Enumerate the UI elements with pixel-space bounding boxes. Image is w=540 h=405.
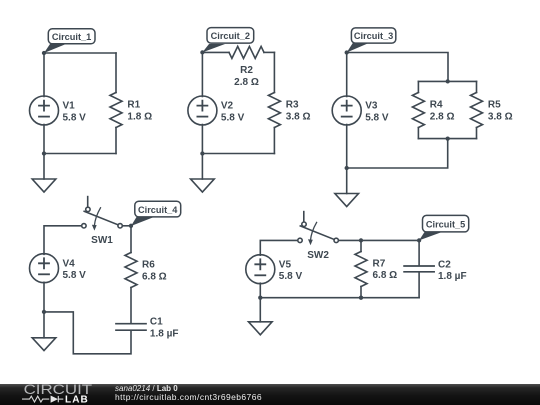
wire top-right lead C2	[264, 51, 274, 53]
wire left upper C3	[346, 53, 348, 97]
svg-text:5.8 V: 5.8 V	[63, 270, 87, 281]
ground C1	[32, 179, 56, 192]
wire R6 top lead C4	[130, 226, 132, 253]
footer bar	[0, 384, 540, 405]
wire left upper C1	[43, 53, 45, 97]
resistor R7	[355, 252, 367, 287]
wire switch-left C5	[260, 240, 298, 255]
balloon Circuit_3	[347, 28, 396, 53]
ground C5	[249, 322, 273, 335]
svg-text:Circuit_1: Circuit_1	[52, 32, 91, 42]
wire bottom C2	[202, 153, 274, 155]
wire switch-right C5	[338, 239, 419, 241]
wire bottom C1	[44, 153, 116, 155]
svg-text:LAB: LAB	[65, 394, 89, 405]
svg-text:1.8 µF: 1.8 µF	[438, 271, 467, 282]
resistor R1	[110, 93, 122, 128]
node C3 top	[345, 50, 349, 54]
resistor R4	[412, 93, 424, 128]
balloon Circuit_4	[131, 201, 181, 226]
voltage source V3	[332, 96, 361, 125]
svg-text:2.8 Ω: 2.8 Ω	[234, 77, 259, 88]
node C2 bottom	[200, 151, 204, 155]
resistor R3	[268, 93, 280, 128]
node C3 par top	[446, 79, 450, 83]
wire R7 bottom lead C5	[360, 287, 362, 298]
circuitlab logo	[0, 384, 100, 405]
node C5 cap top	[417, 238, 421, 242]
svg-text:Circuit_5: Circuit_5	[426, 220, 465, 230]
svg-text:V5: V5	[279, 259, 292, 270]
svg-text:3.8 Ω: 3.8 Ω	[286, 111, 311, 122]
balloon Circuit_2	[202, 28, 253, 53]
svg-text:3.8 Ω: 3.8 Ω	[488, 111, 513, 122]
switch SW2	[298, 212, 339, 246]
svg-text:1.8 µF: 1.8 µF	[150, 328, 179, 339]
svg-text:V1: V1	[63, 101, 76, 112]
wire right upper C2	[273, 52, 275, 92]
wire V5 bottom C5	[259, 283, 261, 322]
svg-text:6.8 Ω: 6.8 Ω	[142, 271, 167, 282]
node C4 switch	[129, 224, 133, 228]
resistor R6	[125, 253, 137, 288]
node C2 top	[200, 50, 204, 54]
svg-text:Circuit_3: Circuit_3	[354, 31, 393, 41]
voltage source V5	[246, 255, 275, 284]
wire R5 leads	[476, 81, 478, 138]
node C5 R7 bottom	[359, 296, 363, 300]
voltage source V1	[30, 96, 59, 125]
ground C2	[191, 179, 215, 192]
svg-text:6.8 Ω: 6.8 Ω	[373, 270, 398, 281]
node C5 V5 bottom	[258, 296, 262, 300]
node C3 par bottom	[446, 136, 450, 140]
svg-text:1.8 Ω: 1.8 Ω	[127, 111, 152, 122]
wire left lower C3	[346, 125, 348, 194]
wire top C1	[44, 52, 116, 54]
switch SW1	[82, 197, 123, 231]
node C3 bottom	[345, 166, 349, 170]
ground C3	[335, 194, 359, 207]
svg-text:Circuit_2: Circuit_2	[211, 31, 250, 41]
svg-text:2.8 Ω: 2.8 Ω	[430, 111, 455, 122]
svg-text:V2: V2	[221, 101, 234, 112]
svg-text:5.8 V: 5.8 V	[63, 113, 87, 124]
node dots	[42, 50, 450, 314]
svg-text:Circuit_4: Circuit_4	[138, 205, 178, 215]
svg-text:R1: R1	[127, 99, 140, 110]
balloons	[44, 28, 469, 241]
svg-text:V3: V3	[365, 101, 378, 112]
footer text	[115, 385, 178, 393]
svg-text:R5: R5	[488, 99, 501, 110]
wire switch-left C4	[44, 226, 82, 255]
wire C2 bottom lead C5	[418, 272, 420, 297]
capacitor C2	[404, 266, 434, 272]
wire top C3	[347, 53, 448, 82]
wire parallel top bar C3	[418, 80, 476, 82]
node C1 top	[42, 51, 46, 55]
wire cap bottom C4	[44, 312, 131, 354]
svg-text:V4: V4	[63, 258, 76, 269]
svg-text:R2: R2	[240, 65, 253, 76]
wire R6-C1 lead C4	[130, 288, 132, 324]
svg-text:R7: R7	[373, 258, 386, 269]
voltage source V2	[188, 96, 217, 125]
svg-text:R6: R6	[142, 259, 155, 270]
wire C2 top lead C5	[418, 240, 420, 265]
capacitor C1	[116, 324, 146, 331]
wire top-left lead C2	[202, 51, 229, 53]
wire bottom drop C3	[347, 139, 448, 168]
node C4 bottom	[42, 310, 46, 314]
svg-text:R3: R3	[286, 99, 299, 110]
wire left lower C1	[43, 125, 45, 180]
balloon Circuit_1	[44, 29, 95, 53]
wire V4 bottom C4	[43, 282, 45, 338]
wire right lower C1	[115, 128, 117, 154]
svg-text:SW1: SW1	[91, 235, 113, 246]
wire right lower C2	[273, 128, 275, 154]
balloon Circuit_5	[419, 215, 469, 240]
wire bottom C5	[260, 297, 419, 299]
svg-text:SW2: SW2	[307, 250, 329, 261]
wire left upper C2	[201, 52, 203, 96]
node C1 bottom	[42, 151, 46, 155]
svg-text:5.8 V: 5.8 V	[365, 113, 389, 124]
wire parallel bottom bar C3	[418, 138, 476, 140]
resistor R5	[471, 93, 483, 128]
ground C4	[32, 338, 56, 351]
svg-text:5.8 V: 5.8 V	[221, 113, 245, 124]
svg-text:R4: R4	[430, 99, 443, 110]
wire left lower C2	[201, 125, 203, 180]
svg-text:5.8 V: 5.8 V	[279, 271, 303, 282]
wire switch-right C4	[122, 225, 131, 227]
node C5 R7 top	[359, 238, 363, 242]
svg-text:C2: C2	[438, 259, 451, 270]
resistor R2	[229, 46, 264, 58]
voltage source V4	[30, 254, 59, 283]
wire R7 top lead C5	[360, 240, 362, 251]
wire R4 leads	[417, 81, 419, 138]
svg-text:C1: C1	[150, 317, 163, 328]
wire right upper C1	[115, 53, 117, 93]
